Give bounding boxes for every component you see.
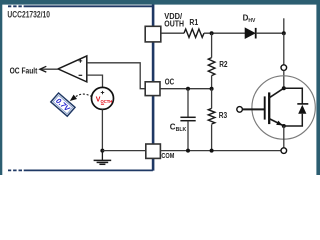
wire VOCTH to ground — [101, 109, 103, 150]
capacitor CBLK — [180, 89, 195, 151]
callout arrow to VOCTH — [76, 94, 92, 97]
comparator U1 — [58, 56, 87, 82]
wire ground to COM pin — [102, 150, 145, 152]
node IGBT emitter — [282, 124, 286, 128]
wire HV bus stub above DHV junction — [283, 18, 285, 33]
wire collector line down to terminal — [283, 33, 285, 65]
wire COM rail — [160, 150, 281, 152]
wire comparator plus input to OC pin — [87, 63, 145, 89]
wire R1 to DHV — [204, 32, 245, 34]
svg-text:OC: OC — [165, 77, 174, 87]
internal diode — [297, 104, 308, 114]
node CBLK-OC junction — [186, 87, 190, 91]
terminal gate — [237, 107, 243, 113]
IGBT emitter branch with arrow — [269, 119, 284, 126]
source VOCTH — [92, 87, 114, 109]
node R2-R3 junction — [210, 87, 214, 91]
node CBLK-COM junction — [186, 149, 190, 153]
arrowhead OC Fault — [40, 66, 47, 72]
callout 0.7V — [51, 93, 75, 116]
wire collector terminal to IGBT — [283, 70, 285, 88]
svg-text:UCC21732/10: UCC21732/10 — [7, 10, 50, 21]
wire comparator minus input to VOCTH — [87, 75, 103, 87]
wire DHV to collector line — [256, 32, 284, 34]
svg-text:OC Fault: OC Fault — [10, 65, 38, 75]
wire emitter down — [283, 126, 285, 148]
IGBT gate bar — [264, 96, 266, 119]
resistor R3 — [208, 89, 215, 151]
svg-text:COM: COM — [161, 151, 174, 160]
IGBT channel bar — [268, 92, 270, 124]
node DHV-collector junction — [282, 31, 286, 35]
IGBT collector branch — [269, 88, 284, 98]
wire comparator output to OC Fault — [40, 68, 58, 70]
IGBT Q1 body circle — [252, 76, 315, 139]
IGBT internal diode branch — [284, 88, 303, 126]
terminal emitter — [281, 148, 287, 154]
node R3-COM junction — [210, 149, 214, 153]
ground — [94, 151, 112, 165]
border frame — [0, 0, 320, 5]
node R1-R2 junction — [210, 31, 214, 35]
wire OC pin to R2-R3 node — [160, 88, 212, 90]
pin box OC — [145, 82, 160, 96]
terminal collector — [281, 65, 287, 71]
pin box COM — [146, 144, 161, 158]
svg-text:OUTH: OUTH — [164, 19, 184, 29]
node IGBT collector — [282, 86, 286, 90]
node ground-COM junction — [100, 149, 104, 153]
svg-text:R1: R1 — [189, 17, 198, 27]
UCC21732/10 block outline (dashed navy border) — [8, 4, 153, 171]
diode DHV — [245, 28, 256, 39]
wire gate — [243, 108, 265, 110]
pin box VDD/OUTH — [145, 26, 161, 42]
wire VDD/OUTH to R1 — [161, 32, 184, 34]
svg-text:R2: R2 — [219, 59, 228, 69]
resistor R2 — [208, 33, 215, 88]
resistor R1 — [184, 29, 204, 37]
svg-text:R3: R3 — [219, 110, 228, 120]
